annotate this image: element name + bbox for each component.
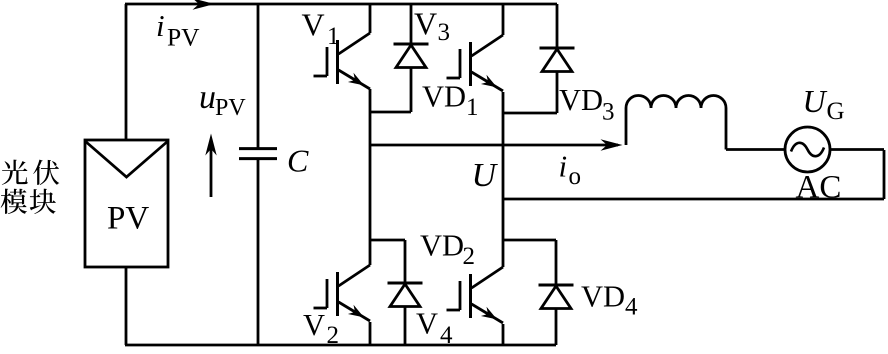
transistor V3 (IGBT) [472,35,504,56]
svg-text:1: 1 [327,23,340,50]
wire right leg top [502,4,505,35]
svg-text:3: 3 [602,99,615,126]
svg-text:V: V [303,308,325,342]
svg-text:1: 1 [466,94,479,121]
svg-text:o: o [569,163,582,190]
diode VD2 [370,239,405,242]
wire right leg middle [502,92,505,267]
wire right leg to AC return [503,198,884,201]
svg-text:VD: VD [559,83,603,117]
wire bottom bus [125,344,556,347]
diode VD1 [410,4,413,45]
diode VD3 [556,4,559,49]
svg-text:i: i [156,8,165,43]
wire AC to right edge [830,148,884,151]
svg-text:2: 2 [327,322,340,349]
svg-text:4: 4 [440,322,453,349]
wire left leg top [369,4,372,33]
PV module box [85,140,168,267]
wire output with arrow i_o [370,144,618,147]
current arrow i_PV [193,0,215,10]
svg-text:3: 3 [438,19,451,46]
inductor filter [625,108,628,145]
svg-text:V: V [416,307,438,341]
svg-text:VD: VD [581,280,625,314]
svg-text:VD: VD [422,79,466,113]
diode VD4 [503,239,556,242]
svg-text:PV: PV [107,201,149,237]
AC source U_G [785,127,830,172]
transistor V1 (IGBT) [339,33,371,54]
svg-text:V: V [302,7,325,43]
svg-text:PV: PV [215,95,246,121]
svg-text:u: u [199,79,216,116]
wire top bus [125,3,557,6]
voltage arrow u_PV [210,141,213,197]
svg-text:V: V [414,6,437,42]
wire left vertical (top bus to PV) [125,4,128,141]
transistor V2 (IGBT) [339,265,371,286]
wire left leg middle [369,89,372,265]
wire inductor to AC source [726,148,785,151]
svg-text:G: G [827,98,845,125]
capacitor C [257,4,260,148]
svg-text:4: 4 [625,293,638,320]
wire left leg bottom [369,322,372,345]
svg-text:i: i [559,149,568,184]
svg-text:U: U [472,157,499,194]
svg-text:AC: AC [796,170,842,206]
svg-text:VD: VD [420,229,464,263]
transistor V4 (IGBT) [472,267,504,288]
svg-text:PV: PV [167,23,200,52]
svg-text:C: C [287,143,309,179]
label 光伏模块 [1,160,60,214]
wire left vertical (PV to bottom bus) [125,267,128,345]
svg-text:2: 2 [463,243,476,270]
svg-text:U: U [803,83,828,119]
wire right leg bottom [502,324,505,345]
